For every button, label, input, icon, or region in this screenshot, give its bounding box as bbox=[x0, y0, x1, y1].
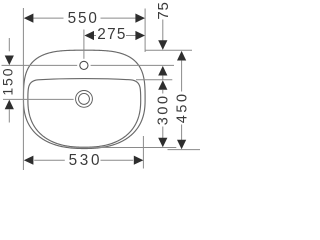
svg-text:275: 275 bbox=[97, 26, 126, 43]
faucet hole horizontal line (right) bbox=[91, 64, 174, 66]
outer bottom extension line (right) bbox=[168, 149, 201, 151]
bowl bottom extension line (right) bbox=[88, 147, 176, 149]
top edge extension line (right) bbox=[146, 49, 193, 51]
left extension line bbox=[22, 8, 24, 170]
dimension 550 line bbox=[33, 17, 63, 19]
svg-text:450: 450 bbox=[174, 91, 190, 123]
dimension 150 leader bottom bbox=[8, 109, 10, 122]
top right extension line bbox=[144, 9, 146, 53]
dimension 275 line bbox=[94, 35, 96, 37]
dimension 75 leader bbox=[162, 20, 164, 42]
drain outer circle bbox=[76, 91, 93, 108]
bottom right extension line bbox=[142, 136, 144, 169]
svg-text:300: 300 bbox=[155, 93, 171, 125]
svg-text:75: 75 bbox=[155, 1, 172, 19]
faucet hole bbox=[80, 61, 88, 69]
dimension 150 leader top bbox=[8, 38, 10, 51]
dimension 530 line bbox=[34, 159, 65, 161]
washbasin inner bowl outline bbox=[28, 79, 141, 148]
faucet center extension line bbox=[83, 30, 85, 59]
basin mid extension line (left) bbox=[3, 98, 74, 100]
svg-text:150: 150 bbox=[0, 67, 16, 96]
dimension 450 line bbox=[177, 51, 186, 61]
drain inner circle bbox=[79, 93, 90, 104]
dimension 300 line bbox=[158, 80, 167, 90]
faucet hole horizontal line (left) bbox=[2, 64, 78, 66]
washbasin outer outline bbox=[24, 50, 146, 148]
bowl top extension line (right) bbox=[136, 79, 172, 81]
svg-text:550: 550 bbox=[68, 10, 99, 27]
svg-text:530: 530 bbox=[69, 152, 103, 169]
